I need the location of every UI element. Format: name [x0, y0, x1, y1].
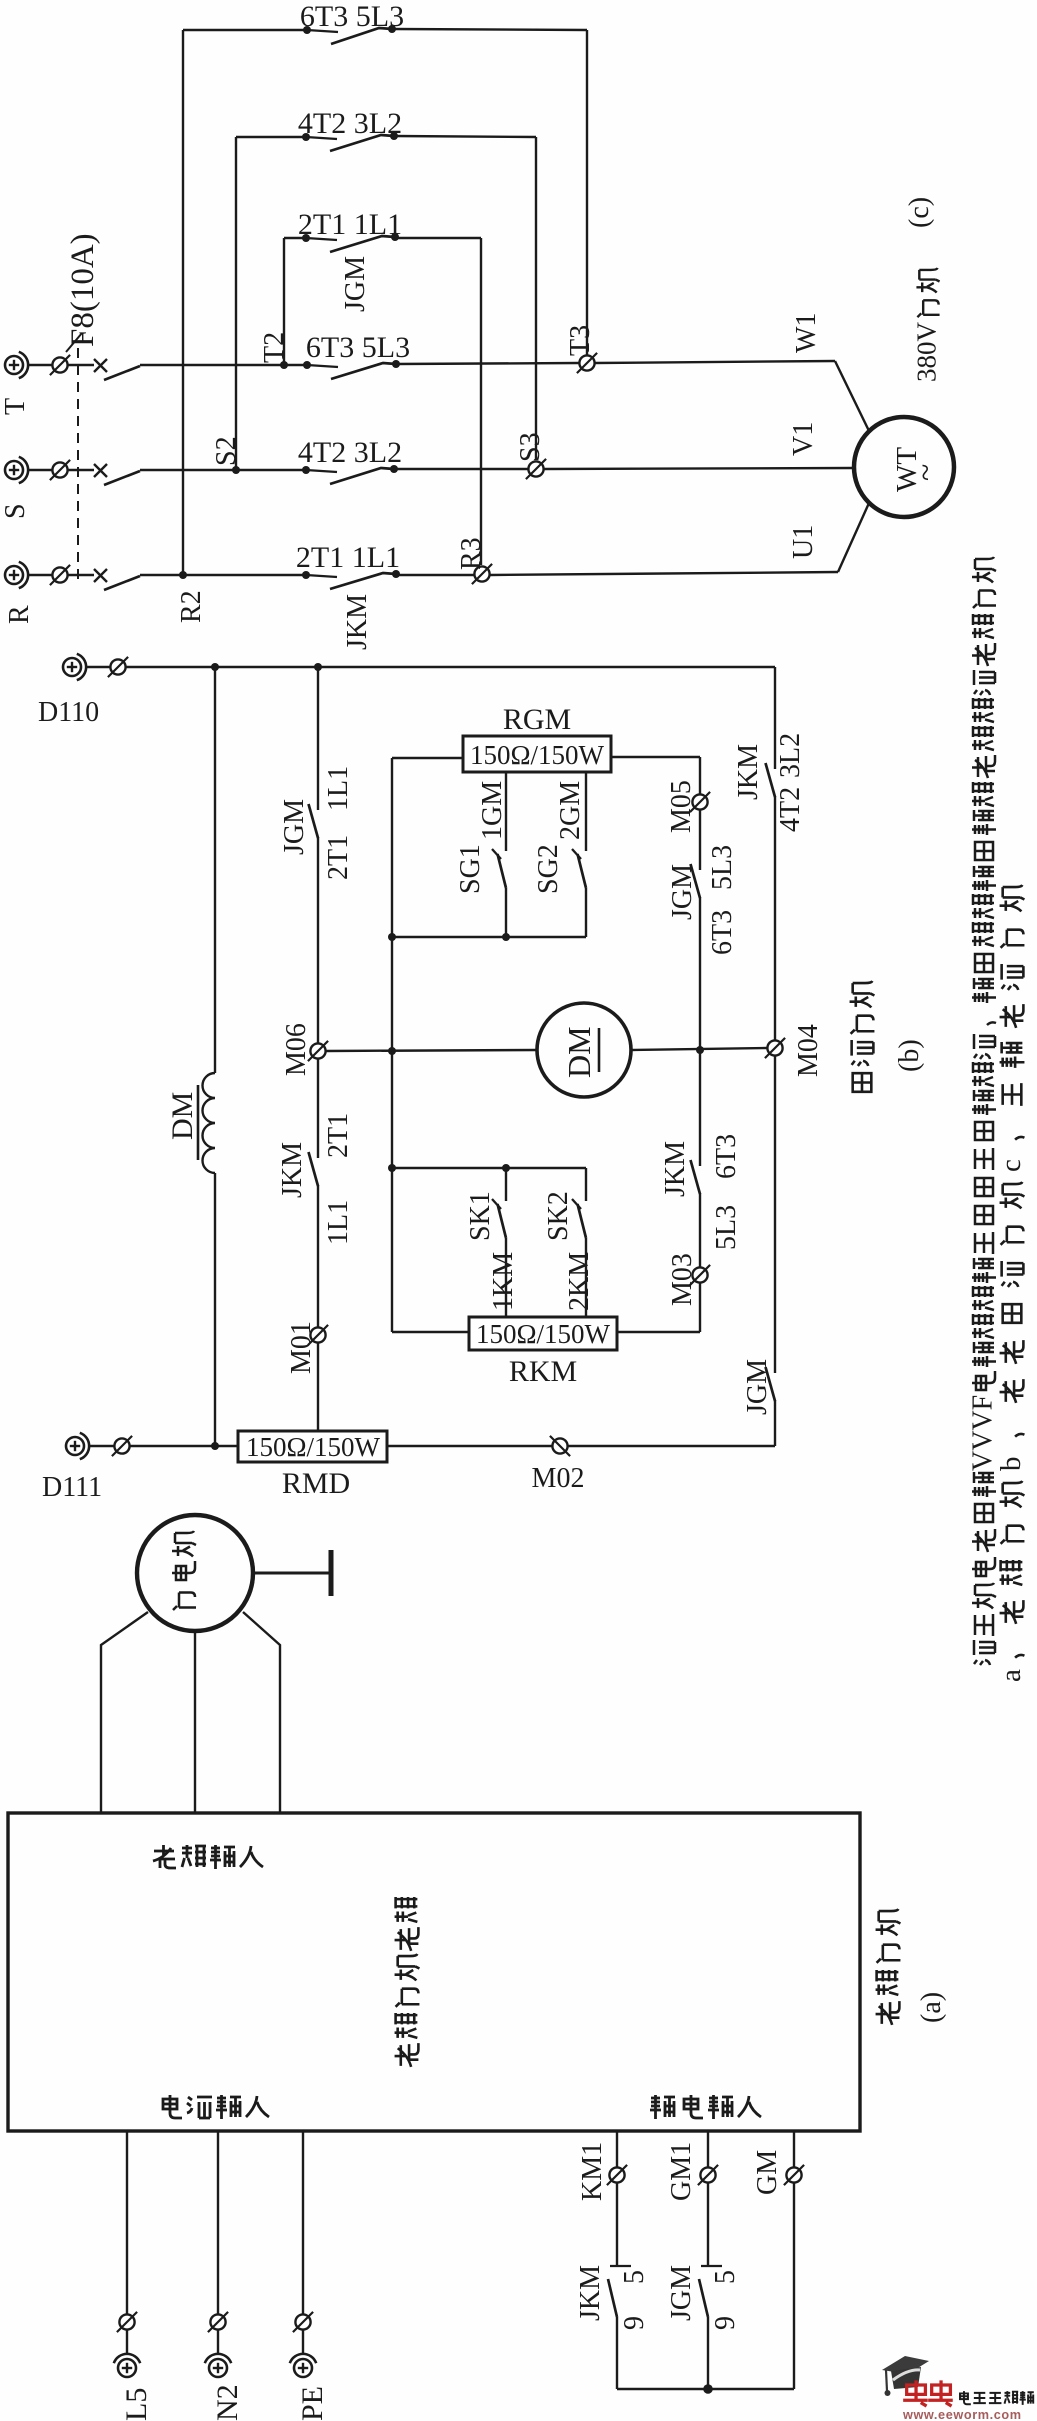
node SG1 bottom [502, 933, 510, 941]
contactor JKM contact 4T2-3L2 far right [766, 763, 776, 797]
wire RGM right [611, 756, 700, 758]
contactor JGM contact right upper [691, 864, 701, 898]
connection point M06 [308, 1041, 328, 1061]
wire row1 left vertical R2 [182, 30, 184, 575]
svg-text:L5: L5 [120, 2388, 153, 2421]
switch SK2 branch wire [585, 1168, 587, 1201]
wire W1 into motor [835, 361, 870, 433]
svg-text:6T3: 6T3 [707, 910, 738, 955]
breaker F8 contact cross on R [94, 569, 107, 582]
connection point on R line [50, 565, 70, 585]
wire JGM to bottom [707, 2317, 709, 2389]
svg-text:W1: W1 [791, 313, 822, 353]
watermark chong chong red characters [903, 2380, 928, 2406]
svg-text:R2: R2 [176, 590, 207, 623]
svg-text:S2: S2 [211, 436, 242, 466]
svg-text:3L2: 3L2 [775, 733, 806, 778]
node S2 junction [232, 466, 240, 474]
wire middle vertical to M06 [317, 837, 319, 1043]
connection point M01 [308, 1325, 328, 1345]
svg-text:DM: DM [561, 1026, 597, 1078]
wire to L5 terminal [126, 2330, 128, 2354]
node bottom line x215 [211, 1442, 219, 1450]
label bian pin men ji (a section) [876, 1909, 901, 2025]
svg-text:9: 9 [619, 2316, 650, 2330]
svg-text:JGM: JGM [742, 1359, 773, 1415]
svg-text:6T3: 6T3 [711, 1134, 742, 1179]
svg-text:JKM: JKM [733, 744, 764, 800]
node centre line x392 [388, 1047, 396, 1055]
resistor RGM box [463, 736, 611, 772]
svg-text:9: 9 [710, 2316, 741, 2330]
wire right loop vertical to M05 [699, 757, 701, 794]
label men dian ji [172, 1531, 196, 1610]
wire JKM to M04 [774, 796, 776, 1040]
connection point KM1 [607, 2165, 627, 2185]
wire M01 to RMD box [317, 1343, 319, 1431]
wire row1 right vertical to T3 [586, 30, 588, 355]
contactor JKM contact signal blade [608, 2279, 617, 2317]
switch SK1 branch wire [505, 1168, 507, 1201]
wire upper loop bottom edge [392, 936, 586, 938]
svg-text:SK1: SK1 [465, 1191, 496, 1241]
connection point above N2 [208, 2312, 228, 2332]
svg-text:JGM: JGM [340, 256, 371, 312]
svg-text:JGM: JGM [666, 2265, 697, 2321]
connection point T3 [577, 353, 597, 373]
wire motor lead left [101, 1612, 148, 1813]
connection point GM [784, 2165, 804, 2185]
terminal D110 [63, 654, 86, 680]
svg-text:SG1: SG1 [455, 844, 486, 894]
shaft end bar [329, 1550, 334, 1596]
wire JKM to M03 [699, 1193, 701, 1267]
svg-text:M03: M03 [667, 1253, 698, 1306]
svg-text:6T3 5L3: 6T3 5L3 [300, 0, 404, 33]
svg-text:JGM: JGM [279, 799, 310, 855]
wire lower loop top edge [392, 1167, 586, 1169]
wire S line to V1 [394, 468, 528, 470]
node loop bottom left [388, 933, 396, 941]
svg-text:N2: N2 [211, 2384, 244, 2421]
contactor JKM contact 4T2-3L2 on S line [302, 465, 398, 484]
svg-text:2T1 1L1: 2T1 1L1 [296, 541, 400, 574]
watermark dian zi xia zai zhan characters [960, 2391, 1034, 2405]
svg-text:150Ω/150W: 150Ω/150W [246, 1432, 381, 1462]
connection point M04 [765, 1038, 785, 1058]
svg-text:JKM: JKM [342, 594, 373, 650]
wire signal lead GM1 [707, 2131, 709, 2167]
resistor RMD box [238, 1431, 387, 1462]
contactor JGM contact on middle vertical [309, 804, 319, 838]
watermark graduation cap [882, 2356, 929, 2396]
svg-text:~: ~ [907, 464, 943, 481]
wire far right vertical top [774, 667, 776, 769]
wire bottom line middle [387, 1445, 552, 1447]
breaker F8 blade on T [104, 366, 140, 380]
wire bottom line left [89, 1445, 114, 1447]
wire T line to contact [140, 364, 307, 366]
breaker F8 blade on R [104, 576, 140, 590]
svg-text:RMD: RMD [282, 1467, 350, 1500]
connection point M05 [690, 792, 710, 812]
svg-text:(b): (b) [894, 1039, 925, 1072]
wire R line left [28, 574, 52, 576]
motor DM [537, 1003, 631, 1097]
connection point M02 [550, 1436, 570, 1456]
contactor JGM contact 6T3-5L3 row 1 [303, 25, 396, 44]
terminal D111 [66, 1433, 89, 1459]
connection point above L5 [117, 2312, 137, 2332]
wire GM down [793, 2183, 795, 2389]
label zhi liu men ji (b section) [850, 981, 875, 1092]
svg-text:2T1 1L1: 2T1 1L1 [298, 208, 402, 241]
wire left loop to centre line [391, 937, 393, 1051]
wire row3 left vertical T2 [283, 238, 285, 365]
svg-text:R3: R3 [456, 537, 487, 570]
wire R line to contact [140, 574, 306, 576]
switch SG1 blade [492, 849, 506, 888]
contactor JGM contact signal blade [699, 2279, 708, 2317]
wire SG1 to loop bottom [505, 888, 507, 937]
svg-text:U1: U1 [788, 525, 819, 559]
svg-text:1L1: 1L1 [323, 766, 354, 811]
svg-text:T: T [0, 398, 31, 415]
wire JGM to bottom line [774, 1400, 776, 1446]
wire left vertical with inductor [214, 667, 216, 1073]
label xin hao shu ru [650, 2095, 761, 2119]
svg-text:RGM: RGM [503, 703, 571, 736]
svg-text:SG2: SG2 [533, 844, 564, 894]
wire RGM left [392, 757, 463, 759]
svg-text:S: S [0, 503, 31, 519]
wire centre line M06 to motor [326, 1050, 537, 1051]
svg-text:2GM: 2GM [555, 781, 586, 840]
svg-text:M06: M06 [281, 1023, 312, 1076]
breaker F8 blade on S [104, 471, 140, 485]
svg-text:S3: S3 [515, 432, 546, 462]
svg-text:a: a [995, 1669, 1027, 1682]
svg-text:b: b [995, 1457, 1027, 1472]
terminal S [5, 457, 28, 483]
breaker F8 arrow [66, 333, 82, 352]
terminal PE [290, 2354, 316, 2377]
wire SK1 to RKM box [505, 1238, 507, 1317]
svg-text:150Ω/150W: 150Ω/150W [476, 1319, 611, 1349]
svg-text:V1: V1 [788, 422, 819, 456]
breaker F8 linkage dashed line [77, 348, 79, 586]
svg-text:5: 5 [710, 2270, 741, 2284]
svg-text:5L3: 5L3 [711, 1205, 742, 1250]
motor men-dian-ji (door motor) [137, 1515, 253, 1631]
wire JGM to centre line [699, 897, 701, 1050]
wire GM1 to JGM contact [707, 2183, 709, 2265]
svg-text:4T2: 4T2 [775, 787, 806, 832]
svg-text:RKM: RKM [509, 1355, 577, 1388]
contactor JKM contact signal tick [610, 2265, 631, 2267]
wire power lead L5 [126, 2131, 128, 2314]
svg-text:1GM: 1GM [477, 781, 508, 840]
wire signal lead GM [793, 2131, 795, 2167]
caption column 1 [968, 557, 999, 1665]
wire lower loop left side [391, 1168, 393, 1332]
svg-text:KM1: KM1 [577, 2142, 608, 2201]
node R2 junction [179, 571, 187, 579]
connection point near D111 [112, 1436, 132, 1456]
wire row2 left vertical S2 [235, 137, 237, 470]
resistor RKM box [469, 1317, 617, 1350]
contactor JKM contact 2T1-1L1 on R line [302, 570, 400, 589]
contactor JKM contact right lower [699, 1050, 701, 1166]
underline DM motor [598, 1028, 601, 1072]
bypass row 1 wire 6T3-5L3 [183, 29, 307, 31]
svg-text:JGM: JGM [667, 864, 698, 920]
svg-text:D111: D111 [42, 1472, 102, 1503]
terminal R [5, 562, 28, 588]
wire S line to contact [140, 469, 306, 471]
svg-text:5L3: 5L3 [707, 845, 738, 890]
wire centre line motor to M04 [631, 1048, 767, 1050]
connection point near D110 [108, 657, 128, 677]
wire SG2 to loop bottom [585, 888, 587, 937]
wire signal lead KM1 [616, 2131, 618, 2167]
svg-text:1KM: 1KM [488, 1252, 519, 1311]
svg-text:380V: 380V [911, 322, 941, 383]
svg-text:PE: PE [296, 2386, 329, 2421]
connection point M03 [690, 1265, 710, 1285]
svg-text:2KM: 2KM [564, 1252, 595, 1311]
wire signal bottom bus [617, 2388, 794, 2390]
svg-text:DM: DM [166, 1092, 199, 1140]
connection point on S line [50, 460, 70, 480]
wire row2 right vertical to S3 [535, 137, 537, 460]
breaker F8 contact cross on T [94, 359, 107, 372]
svg-text:JKM: JKM [277, 1142, 308, 1198]
bypass row 2 wire 4T2-3L2 [236, 136, 306, 138]
svg-text:www.eeworm.com: www.eeworm.com [902, 2408, 1022, 2421]
wire middle vertical upper [317, 667, 319, 810]
motor WT 380V [854, 417, 954, 517]
wire R line to U1 [396, 574, 475, 576]
connection point R3 [472, 564, 492, 584]
wire to N2 terminal [217, 2330, 219, 2354]
svg-text:F8(10A): F8(10A) [65, 233, 101, 347]
node top line x318 [314, 663, 322, 671]
svg-text:150Ω/150W: 150Ω/150W [470, 740, 605, 770]
inverter box [8, 1813, 860, 2131]
svg-text:SK2: SK2 [543, 1191, 574, 1241]
svg-text:2T1: 2T1 [323, 835, 354, 880]
contactor JGM contact 2T1-1L1 row 3 [302, 233, 399, 252]
connection point above PE [293, 2312, 313, 2332]
node SK1 top [502, 1164, 510, 1172]
svg-text:(c): (c) [904, 197, 935, 228]
wire T line to W1 [396, 363, 579, 364]
wire to PE terminal [302, 2330, 304, 2354]
switch SK1 blade [492, 1199, 506, 1238]
wire power lead PE [302, 2131, 304, 2314]
wire KM1 to JKM contact [616, 2183, 618, 2265]
label 380V men ji [911, 268, 941, 382]
wire JKM to bottom [616, 2317, 618, 2389]
wire bottom line right [568, 1445, 775, 1447]
terminal L5 [114, 2354, 140, 2377]
wire SK2 to RKM box [585, 1238, 587, 1317]
svg-text:1L1: 1L1 [323, 1200, 354, 1245]
contactor JKM contact 6T3-5L3 on T line [303, 360, 400, 379]
svg-text:5: 5 [619, 2270, 650, 2284]
contactor JGM contact 4T2-3L2 row 2 [302, 132, 398, 151]
wire M05 to JGM contact [699, 810, 701, 870]
wire row3 right vertical to R3 [480, 238, 482, 565]
svg-text:M05: M05 [666, 780, 697, 833]
switch SG2 blade [572, 849, 586, 888]
svg-text:T2: T2 [259, 332, 290, 363]
wire M04 down to JGM [774, 1056, 776, 1373]
caption column 2 [995, 885, 1027, 1682]
label bian pin men ji xi tong [395, 1897, 420, 2067]
bypass row 3 wire 2T1-1L1 [284, 237, 306, 239]
wire motor lead middle [194, 1631, 196, 1813]
svg-text:R: R [4, 605, 35, 624]
svg-text:4T2 3L2: 4T2 3L2 [298, 436, 402, 469]
svg-text:M04: M04 [793, 1024, 824, 1077]
switch SK2 blade [572, 1199, 586, 1238]
terminal N2 [205, 2354, 231, 2377]
wire T line left [28, 364, 52, 366]
wire M06 to JKM contact [317, 1059, 319, 1158]
connection point on T line [50, 355, 70, 375]
label bian pin shu ru [153, 1845, 263, 1869]
contactor JGM contact far right lower [766, 1367, 776, 1401]
label dian yuan shu ru [163, 2095, 269, 2119]
node lower loop top left [388, 1164, 396, 1172]
svg-text:D110: D110 [38, 697, 99, 728]
wire M03 to RKM box [699, 1283, 701, 1332]
switch SG1 branch wire [505, 772, 507, 851]
wire left loop vertical [391, 758, 393, 937]
svg-text:JKM: JKM [660, 1141, 691, 1197]
svg-text:JKM: JKM [575, 2265, 606, 2321]
wire S line left [28, 469, 52, 471]
breaker F8 contact cross on S [94, 464, 107, 477]
svg-text:4T2 3L2: 4T2 3L2 [298, 107, 402, 140]
svg-text:c: c [995, 1159, 1027, 1172]
contactor JGM contact signal tick [701, 2265, 722, 2267]
inductor DM winding [202, 1073, 215, 1173]
node signal bus junction [703, 2384, 713, 2394]
switch SG2 branch wire [585, 772, 587, 851]
wire motor lead right [243, 1612, 280, 1813]
svg-text:6T3 5L3: 6T3 5L3 [306, 331, 410, 364]
underline of DM label [197, 1085, 200, 1160]
wire JKM to M01 [317, 1185, 319, 1327]
connection point S3 [526, 459, 546, 479]
motor shaft [253, 1572, 331, 1575]
svg-text:(a): (a) [916, 1992, 947, 2023]
node top line x215 [211, 663, 219, 671]
svg-text:GM: GM [752, 2150, 783, 2195]
contactor JKM contact on middle vertical [309, 1152, 319, 1186]
wire power lead N2 [217, 2131, 219, 2314]
terminal T (power input) [5, 352, 28, 378]
wire top line [86, 666, 110, 668]
node centre line x700 [696, 1046, 704, 1054]
svg-text:T3: T3 [565, 325, 596, 356]
wire left loop below centre [391, 1051, 393, 1168]
svg-text:2T1: 2T1 [323, 1113, 354, 1158]
svg-text:GM1: GM1 [666, 2142, 697, 2201]
svg-text:M02: M02 [532, 1463, 585, 1494]
node T2 junction [280, 361, 288, 369]
connection point GM1 [698, 2165, 718, 2185]
svg-text:M01: M01 [286, 1321, 317, 1374]
wire U1 into motor [838, 503, 869, 572]
